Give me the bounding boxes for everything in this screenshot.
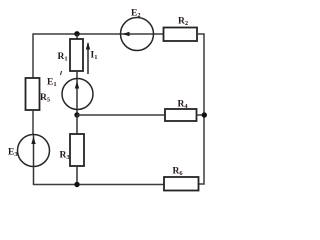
svg-text:R3: R3 (60, 151, 71, 162)
resistor R5 (left vertical) (26, 78, 40, 110)
resistor R6 (bottom-right horizontal) (164, 177, 199, 191)
arrowhead of E3 (pointing up) (31, 137, 35, 145)
svg-text:R6: R6 (173, 167, 184, 178)
wire middle horizontal to R4 (77, 114, 165, 116)
source E2 (circle on top wire) (121, 18, 154, 51)
wire R4 right to right rail (197, 114, 205, 116)
source E3 (circle) (18, 135, 50, 167)
wire from R3 to bottom node (76, 166, 78, 185)
label R5 (40, 93, 51, 104)
svg-text:R5: R5 (40, 93, 51, 104)
label I1 (91, 51, 98, 62)
resistor R1 (center vertical) (70, 39, 83, 71)
node dot right (202, 112, 207, 117)
wire through E3 down to bottom-left corner (33, 135, 35, 185)
wire top-left horizontal (33, 33, 164, 35)
svg-text:E1: E1 (47, 78, 57, 89)
label E2 (131, 9, 141, 20)
label R1 (58, 52, 68, 63)
wire left rail middle (32, 110, 34, 135)
svg-text:E3: E3 (8, 148, 18, 159)
label R3 (60, 151, 71, 162)
label R4 (178, 100, 189, 111)
wire from R1 through E1 to middle node (76, 71, 78, 115)
wire from top node to R1 (76, 34, 78, 39)
source E1 (circle) (62, 79, 93, 110)
arrowhead of E1 (pointing up) (75, 81, 79, 89)
svg-text:E2: E2 (131, 9, 141, 20)
node dot top (junction of R1 branch) (74, 31, 79, 36)
node dot middle (74, 112, 79, 117)
label R6 (173, 167, 184, 178)
node dot bottom (74, 182, 79, 187)
svg-text:R1: R1 (58, 52, 68, 63)
wire left rail upper (32, 33, 34, 78)
current arrow I1 (up, right of R1) (86, 42, 90, 74)
label E1 with prime (47, 71, 62, 88)
wire bottom horizontal (33, 184, 164, 186)
resistor R4 (middle-right horizontal) (165, 109, 197, 121)
resistor R2 (top-right horizontal) (164, 28, 198, 42)
wire right rail (top corner to bottom corner) (197, 34, 204, 184)
label E3 (8, 148, 18, 159)
label R2 (178, 17, 188, 28)
svg-text:R4: R4 (178, 100, 189, 111)
arrowhead of E2 (pointing left) (122, 32, 130, 36)
svg-text:I1: I1 (91, 51, 98, 62)
svg-text:R2: R2 (178, 17, 188, 28)
resistor R3 (bottom-center vertical) (70, 134, 84, 166)
wire from middle node down to R3 (76, 115, 78, 134)
